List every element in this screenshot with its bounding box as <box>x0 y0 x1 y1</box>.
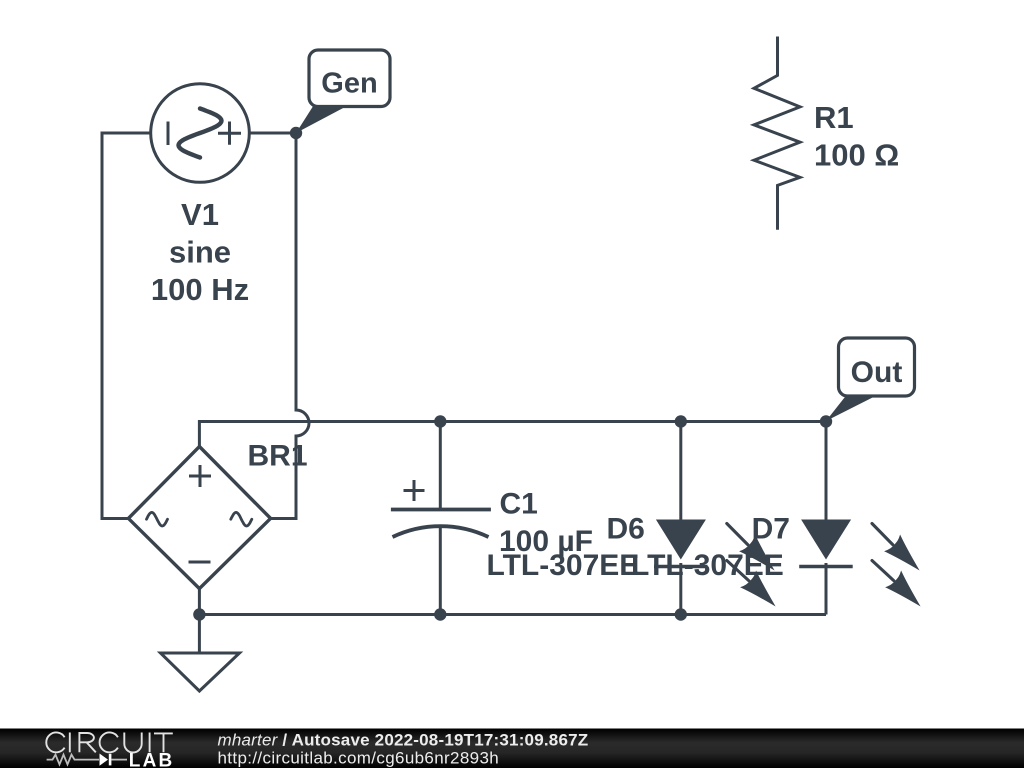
svg-text:mharter / Autosave 2022-08-19T: mharter / Autosave 2022-08-19T17:31:09.8… <box>218 731 589 750</box>
svg-text:LTL-307EE: LTL-307EE <box>631 549 784 582</box>
svg-text:V1: V1 <box>181 197 219 232</box>
svg-text:100 Hz: 100 Hz <box>151 272 249 307</box>
svg-text:sine: sine <box>169 235 231 270</box>
svg-text:100 Ω: 100 Ω <box>814 138 899 173</box>
svg-text:LAB: LAB <box>129 750 175 768</box>
svg-text:Out: Out <box>851 356 903 389</box>
svg-text:D6: D6 <box>607 513 645 546</box>
svg-text:http://circuitlab.com/cg6ub6nr: http://circuitlab.com/cg6ub6nr2893h <box>218 749 500 768</box>
svg-text:D7: D7 <box>752 513 790 546</box>
svg-text:LTL-307EE: LTL-307EE <box>487 549 640 582</box>
svg-text:Gen: Gen <box>321 68 377 100</box>
svg-text:BR1: BR1 <box>248 440 308 473</box>
svg-text:R1: R1 <box>814 100 854 135</box>
svg-text:C1: C1 <box>500 488 538 521</box>
